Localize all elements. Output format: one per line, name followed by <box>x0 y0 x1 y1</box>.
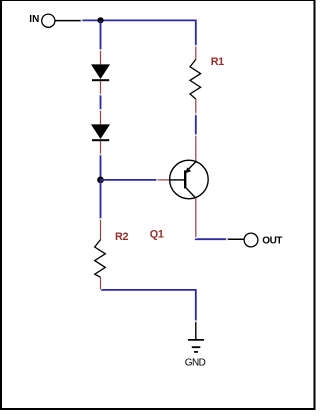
transistor Q1 collector line <box>186 188 196 198</box>
svg-text:R1: R1 <box>211 56 224 68</box>
svg-text:R2: R2 <box>115 231 128 243</box>
diode D2 anode lead <box>100 110 102 125</box>
transistor Q1 body circle <box>170 160 209 199</box>
wire collector to OUT <box>196 238 227 240</box>
svg-text:Q1: Q1 <box>150 229 164 241</box>
terminal IN <box>42 14 55 27</box>
wire right branch down to R1 <box>195 20 197 46</box>
pin end markers <box>81 20 228 323</box>
svg-text:GND: GND <box>185 358 206 369</box>
ground bar 1 <box>188 339 204 341</box>
wire left branch down to D1 <box>100 20 102 50</box>
junction top node <box>97 17 103 23</box>
collector pin lead Q1 <box>195 198 197 237</box>
transistor Q1 emitter line <box>185 162 195 173</box>
transistor Q1 emitter arrow <box>185 167 191 173</box>
diode D2 cathode bar <box>92 139 109 141</box>
diode D2 triangle <box>91 124 110 139</box>
terminal OUT <box>244 233 258 247</box>
ground bar 3 <box>194 351 198 353</box>
transistor Q1 base bar <box>184 170 186 188</box>
wire junction down to R2 <box>100 180 102 219</box>
svg-text:OUT: OUT <box>262 236 282 247</box>
resistor R1 top lead <box>195 46 197 60</box>
diode D1 anode lead <box>100 50 102 65</box>
resistor R1 bottom lead <box>195 99 197 115</box>
resistor R2 zigzag <box>95 240 106 278</box>
junction base node <box>97 177 104 184</box>
resistor R2 bottom lead <box>100 277 102 290</box>
diode D1 triangle <box>91 64 110 79</box>
wire base horizontal <box>101 179 158 181</box>
pin lead of IN terminal <box>55 20 82 22</box>
ground lead <box>195 321 197 340</box>
wire top horizontal <box>82 19 196 21</box>
transistor Q1 base line <box>170 179 185 181</box>
resistor R2 top lead <box>100 219 102 240</box>
diode D1 cathode bar <box>92 79 109 81</box>
pin lead of OUT terminal <box>227 238 244 240</box>
wire R1 to emitter <box>195 115 197 134</box>
wire D2 to base junction <box>100 154 102 180</box>
svg-text:IN: IN <box>29 14 39 25</box>
diode D1 cathode lead <box>100 81 102 94</box>
ground bar 2 <box>192 346 201 348</box>
diode D2 cathode lead <box>100 141 102 154</box>
emitter pin lead Q1 <box>195 135 197 162</box>
base pin lead Q1 <box>157 179 170 181</box>
wire bottom horizontal <box>101 290 196 321</box>
resistor R1 zigzag <box>190 59 201 99</box>
wire between diodes <box>100 94 102 110</box>
